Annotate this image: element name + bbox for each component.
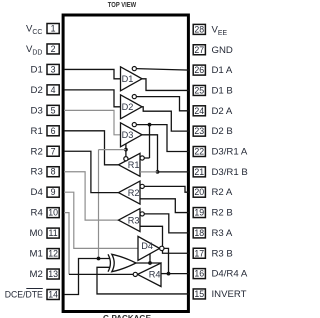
wire INVERT pin 15 to XOR input (97, 267, 190, 294)
pin 21 box (193, 167, 205, 177)
wire R2 A input (144, 186, 190, 192)
wire D2 B output to pin 23 (142, 107, 190, 131)
R1 inverting input bubble (140, 156, 144, 160)
wire D1 B output (142, 79, 190, 91)
junction D4 output / R4 input (167, 272, 171, 276)
svg-text:24: 24 (194, 106, 204, 116)
wire R3 B input (140, 226, 190, 253)
pin 15 box (193, 289, 205, 299)
svg-text:M2: M2 (29, 269, 42, 280)
svg-text:28: 28 (194, 24, 204, 34)
junction XOR output (148, 261, 152, 265)
pin 23 box (193, 126, 205, 136)
pin 1 box (47, 24, 59, 34)
svg-text:7: 7 (51, 146, 56, 156)
pin 13 box (47, 269, 59, 279)
svg-text:11: 11 (49, 228, 58, 238)
svg-text:9: 9 (51, 187, 56, 197)
wire R2 output to pin (64, 151, 119, 192)
svg-text:D2: D2 (31, 85, 43, 96)
wire R3 A input (144, 214, 190, 233)
svg-text:VDD: VDD (26, 44, 42, 57)
pin 25 box (193, 85, 205, 95)
svg-text:D2 B: D2 B (212, 126, 233, 137)
wire D2 input from pin 4 (64, 90, 121, 107)
svg-text:R3 B: R3 B (212, 248, 233, 259)
svg-text:4: 4 (51, 85, 56, 95)
svg-text:INVERT: INVERT (212, 289, 247, 300)
wire D4 output to pin 16 (164, 248, 190, 273)
pin 3 box (47, 64, 59, 74)
svg-text:D3: D3 (122, 130, 134, 140)
R3 inverting input bubble (140, 212, 144, 216)
svg-text:VEE: VEE (212, 24, 228, 37)
svg-text:D1: D1 (122, 74, 134, 84)
svg-text:23: 23 (194, 126, 204, 136)
svg-text:10: 10 (48, 208, 58, 218)
svg-text:R2: R2 (31, 146, 43, 157)
svg-text:R1: R1 (31, 126, 43, 137)
svg-text:R3 A: R3 A (212, 228, 233, 239)
svg-text:R3: R3 (128, 215, 140, 225)
svg-text:D2: D2 (122, 102, 134, 112)
pin 27 box (193, 45, 205, 55)
wire R4 input from shared pin net (161, 273, 169, 275)
svg-text:22: 22 (194, 147, 204, 157)
svg-text:2: 2 (51, 44, 56, 54)
pin 11 box (47, 228, 59, 238)
svg-text:D4: D4 (31, 187, 44, 198)
pin 4 box (47, 85, 59, 95)
pin 16 box (193, 269, 205, 279)
svg-text:DCE/DTE: DCE/DTE (5, 289, 43, 300)
junction control vertical / XOR input (97, 257, 101, 261)
wire R1 bubble net horizontal (99, 149, 126, 151)
svg-text:D1 A: D1 A (212, 65, 233, 76)
svg-text:D3/R1 A: D3/R1 A (212, 147, 248, 158)
junction D3 B / R1 B input (156, 170, 160, 174)
pin 18 box (193, 228, 205, 238)
wire R1 bubble up to D3 underside (125, 144, 127, 157)
svg-text:VCC: VCC (26, 23, 42, 36)
wire R1 inverting input stub (144, 157, 149, 159)
pin 17 box (193, 248, 205, 258)
pin 9 box (47, 187, 59, 197)
wire D3 input from pin 5 (64, 110, 121, 134)
svg-text:D1: D1 (31, 64, 43, 75)
wire D3 A net down to R1 inverting input (149, 125, 151, 158)
svg-text:R2 A: R2 A (212, 187, 233, 198)
R1 top-edge bubble (124, 157, 128, 161)
D4 output bubble (160, 246, 164, 250)
svg-text:15: 15 (194, 289, 204, 299)
svg-text:12: 12 (48, 249, 58, 259)
receiver R1 (119, 153, 141, 176)
pin 10 box (47, 208, 59, 218)
svg-text:GND: GND (212, 45, 233, 56)
driver D1 (121, 67, 143, 91)
pin 26 box (193, 65, 205, 75)
wire R1 B input from D3 B net (140, 171, 158, 173)
wire R1 output to pin 6 (64, 131, 119, 165)
svg-text:25: 25 (194, 85, 204, 95)
svg-text:R1: R1 (128, 160, 140, 170)
svg-text:D3/R1 B: D3/R1 B (212, 167, 248, 178)
svg-text:3: 3 (51, 64, 56, 74)
wire R4 output horizontal (69, 273, 133, 275)
R2 inverting input bubble (140, 184, 144, 188)
receiver R2 (119, 181, 141, 204)
wire XOR output to R4 top corner (136, 262, 161, 264)
svg-text:R4: R4 (149, 270, 161, 280)
svg-text:R3: R3 (31, 167, 43, 178)
wire D2 A output to pin 24 (136, 97, 190, 111)
svg-text:18: 18 (194, 228, 204, 238)
receiver R3 (119, 209, 141, 232)
svg-text:D3: D3 (31, 105, 43, 116)
pin 20 box (193, 187, 205, 197)
svg-text:6: 6 (51, 126, 56, 136)
pin 24 box (193, 106, 205, 116)
svg-text:26: 26 (194, 65, 204, 75)
wire control vertical down to XOR input (98, 150, 100, 259)
svg-text:27: 27 (194, 45, 204, 55)
svg-text:M0: M0 (29, 228, 42, 239)
svg-text:R2: R2 (128, 188, 140, 198)
svg-text:D4: D4 (141, 241, 153, 251)
wire DCE/DTE pin 14 to XOR input (64, 259, 110, 295)
svg-text:20: 20 (194, 187, 204, 197)
D1 inverting output bubble (132, 67, 136, 71)
svg-text:8: 8 (51, 167, 56, 177)
receiver R4 (138, 263, 162, 287)
svg-text:1: 1 (51, 24, 56, 34)
wire R3 output to pin (64, 172, 119, 220)
pin 14 box (47, 289, 59, 299)
svg-text:G PACKAGE: G PACKAGE (103, 314, 152, 318)
pin 12 box (47, 249, 59, 259)
svg-text:M1: M1 (29, 249, 42, 260)
D2 inverting output bubble (132, 95, 136, 99)
svg-text:14: 14 (48, 289, 58, 299)
wire R4 output vertical from pin 10 (64, 213, 69, 275)
pin 19 box (193, 208, 205, 218)
wire R2 B input (140, 199, 190, 213)
driver D4 (138, 236, 160, 260)
XOR gate (112, 254, 136, 271)
driver D2 (121, 95, 143, 119)
wire D3 A output to pin 22 (136, 125, 190, 152)
D3 inverting output bubble (132, 123, 136, 127)
IC package body (63, 15, 188, 312)
junction D3 A output (148, 123, 152, 127)
svg-text:D2 A: D2 A (212, 106, 233, 117)
svg-text:R2 B: R2 B (212, 208, 233, 219)
svg-text:5: 5 (51, 105, 56, 115)
driver D3 (121, 123, 143, 147)
pin 22 box (193, 147, 205, 157)
pin 5 box (47, 105, 59, 115)
svg-text:16: 16 (194, 269, 204, 279)
svg-text:21: 21 (194, 167, 204, 177)
wire D3 B output to pin 21 (142, 135, 190, 172)
svg-text:R4: R4 (31, 208, 44, 219)
pin 6 box (47, 126, 59, 136)
pin 28 box (193, 24, 205, 34)
pin 7 box (47, 146, 59, 156)
svg-text:19: 19 (194, 208, 204, 218)
wire D1 A output (136, 69, 190, 71)
svg-text:17: 17 (194, 248, 204, 258)
wire D4 input from pin 9 (64, 192, 138, 248)
svg-text:TOP VIEW: TOP VIEW (108, 0, 137, 9)
wire XOR output stub to D4 underside (149, 254, 151, 263)
R4 output bubble (133, 272, 137, 276)
wire D1 input from pin (64, 69, 121, 78)
svg-text:D4/R4 A: D4/R4 A (212, 269, 248, 280)
pin 8 box (47, 167, 59, 177)
svg-text:13: 13 (48, 269, 58, 279)
pin 2 box (47, 44, 59, 54)
junction R1 bubble net (124, 148, 128, 152)
svg-text:D1 B: D1 B (212, 85, 233, 96)
